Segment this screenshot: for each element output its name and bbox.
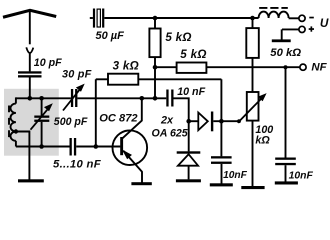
wire antenna lead bbox=[29, 53, 31, 71]
capacitor C 50uF (electrolytic) bbox=[93, 9, 104, 28]
ground (filter left) bbox=[210, 183, 233, 186]
svg-text:2x: 2x bbox=[160, 114, 174, 126]
terminal +U bbox=[299, 26, 305, 32]
ground (shunt diode) bbox=[176, 179, 201, 182]
diode D1 OA625 (series) bbox=[189, 120, 199, 122]
wire diode output bbox=[213, 120, 239, 122]
wire collector row (main) bbox=[77, 97, 166, 99]
wire 10nF to detector bbox=[174, 98, 189, 121]
capacitor C 500pF (variable) bbox=[41, 98, 43, 115]
svg-text:10 nF: 10 nF bbox=[177, 86, 205, 98]
svg-text:U: U bbox=[320, 16, 329, 30]
wire +U bbox=[282, 28, 299, 30]
node top rail / 50k bbox=[250, 16, 255, 21]
transistor Q1 OC872 bbox=[113, 130, 148, 165]
node 500pF top bbox=[39, 96, 44, 101]
node 500pF bottom bbox=[39, 144, 44, 149]
svg-text:5 kΩ: 5 kΩ bbox=[180, 48, 206, 61]
node 5k bottom / NF row bbox=[153, 65, 158, 70]
svg-text:NF: NF bbox=[311, 61, 327, 73]
wire top rail bbox=[90, 17, 93, 19]
svg-text:OA 625: OA 625 bbox=[152, 128, 189, 140]
node detector input bbox=[186, 119, 191, 124]
wire 50k to pot bbox=[252, 58, 254, 92]
node collector bbox=[140, 96, 145, 101]
wire 3k to detector column bbox=[138, 78, 221, 80]
svg-text:50 kΩ: 50 kΩ bbox=[270, 47, 301, 59]
svg-text:5 kΩ: 5 kΩ bbox=[165, 31, 191, 44]
svg-text:3 kΩ: 3 kΩ bbox=[113, 59, 139, 72]
svg-text:50 µF: 50 µF bbox=[96, 30, 125, 42]
wire filter vertical bbox=[220, 79, 222, 156]
potentiometer R 100k bbox=[247, 92, 259, 121]
wire choke to terminal bbox=[289, 17, 299, 19]
node coil tap bbox=[14, 129, 18, 133]
wire emitter to ground bbox=[141, 171, 143, 182]
node antenna/tank junction bbox=[28, 96, 33, 101]
terminal -U bbox=[299, 15, 305, 21]
ground (emitter) bbox=[131, 182, 151, 185]
resistor R 5k (collector load, vertical) bbox=[154, 18, 156, 29]
node wiper wire end bbox=[237, 119, 241, 123]
capacitor C 10nF (filter right) bbox=[275, 158, 296, 166]
wire +U to ground bbox=[281, 29, 283, 39]
svg-text:10nF: 10nF bbox=[289, 171, 314, 182]
capacitor C 10nF (series) bbox=[166, 90, 173, 107]
wire base bbox=[76, 146, 120, 148]
choke core (dashed) bbox=[259, 7, 288, 9]
ground (filter right) bbox=[275, 181, 298, 184]
svg-text:5...10 nF: 5...10 nF bbox=[53, 159, 102, 171]
resistor R 50k bbox=[252, 18, 254, 28]
wire collector lead bbox=[122, 98, 141, 138]
wire pot to ground bbox=[252, 121, 254, 187]
antenna bbox=[3, 10, 56, 53]
node base/bias junction bbox=[94, 144, 99, 149]
terminal NF bbox=[300, 64, 306, 70]
wire bias vertical bbox=[95, 79, 97, 146]
diode D2 OA625 (shunt, vertical) bbox=[188, 121, 190, 151]
node NF branch junction bbox=[284, 65, 288, 69]
wire NF branch vertical bbox=[285, 67, 287, 158]
svg-text:10 pF: 10 pF bbox=[34, 57, 62, 69]
node supply/collector junction bbox=[153, 96, 158, 101]
svg-text:10nF: 10nF bbox=[223, 170, 248, 181]
wire tank top bbox=[16, 97, 71, 99]
capacitor C 10nF (filter left) bbox=[211, 156, 232, 164]
svg-text:kΩ: kΩ bbox=[255, 135, 270, 147]
coil L1 (tuning coil) bbox=[10, 97, 15, 146]
ground (+U) bbox=[272, 39, 291, 42]
node top rail / 5k bbox=[153, 16, 158, 21]
resistor R 3k bbox=[96, 78, 108, 80]
wire NF row bbox=[155, 66, 300, 68]
svg-text:500 pF: 500 pF bbox=[54, 116, 88, 128]
inductor L2 (RF choke) bbox=[259, 12, 289, 18]
tuning-coil shading box bbox=[4, 89, 59, 156]
svg-text:OC 872: OC 872 bbox=[99, 113, 138, 125]
ground (potentiometer) bbox=[241, 186, 264, 189]
polarity mark minus bbox=[309, 17, 314, 19]
coil core (dashed) bbox=[8, 106, 10, 140]
wire top rail mid bbox=[104, 17, 258, 19]
wire tank bottom bbox=[16, 146, 70, 148]
svg-text:30 pF: 30 pF bbox=[62, 68, 92, 80]
wire coil tap to ground bbox=[16, 132, 30, 180]
capacitor C 10pF bbox=[18, 71, 42, 77]
resistor R 5k (output, horizontal) bbox=[177, 63, 207, 73]
wire 10pF to tank bbox=[29, 78, 31, 99]
capacitor C 5...10nF bbox=[70, 138, 77, 156]
polarity mark plus bbox=[309, 26, 314, 31]
capacitor C 30pF (trimmer) bbox=[71, 89, 78, 107]
ground (tank tap) bbox=[18, 179, 44, 182]
node diode out / filter bbox=[219, 119, 224, 124]
